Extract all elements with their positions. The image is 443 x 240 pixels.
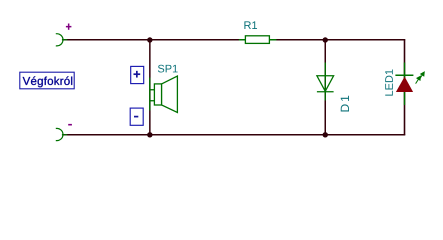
label + of top connector xyxy=(66,24,72,30)
wire speaker branch vertical xyxy=(149,40,151,135)
wire bottom rail xyxy=(62,134,405,136)
diode D1 xyxy=(317,63,334,101)
LED1 xyxy=(395,63,424,106)
node junction dot bottom-right xyxy=(323,132,328,137)
label R1 xyxy=(244,21,257,29)
connector terminal minus (bottom left) xyxy=(56,128,67,140)
resistor R1 xyxy=(239,36,277,44)
speaker SP1 xyxy=(150,76,178,112)
LED light arrows xyxy=(416,72,425,84)
wire right vertical xyxy=(404,39,406,135)
wire top rail xyxy=(62,39,405,41)
Végfokról label box xyxy=(20,72,74,89)
label SP1 xyxy=(158,65,178,73)
wire diode branch vertical xyxy=(324,40,326,135)
node junction dot top-right xyxy=(323,37,328,42)
label - of bottom connector xyxy=(68,124,72,126)
label D1 (rotated) xyxy=(341,96,349,112)
label LED1 (rotated) xyxy=(385,70,393,96)
connector terminal plus (top left) xyxy=(56,34,67,46)
node junction dot bottom-left xyxy=(147,132,152,137)
speaker pin marker box - xyxy=(130,108,143,125)
node junction dot top-left xyxy=(147,37,152,42)
speaker pin marker box + xyxy=(131,66,144,83)
